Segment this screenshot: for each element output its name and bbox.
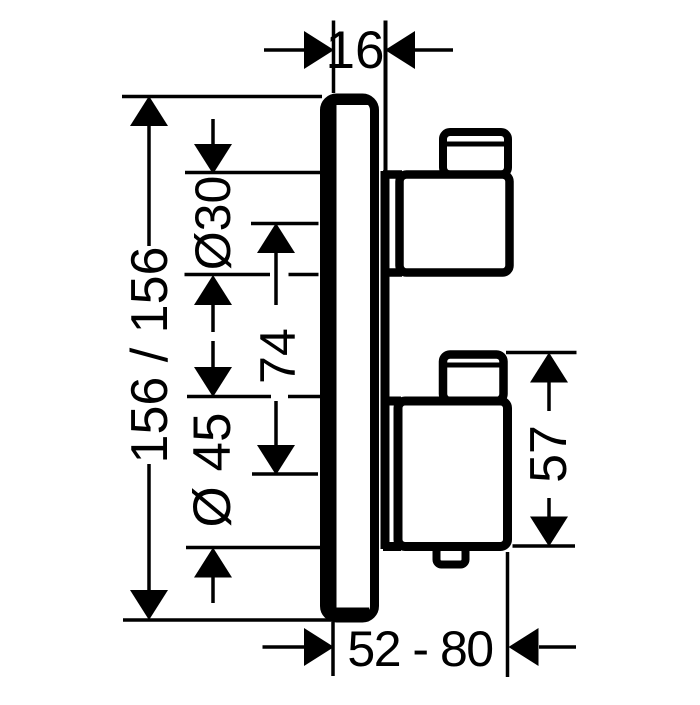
svg-text:Ø 45: Ø 45 xyxy=(183,413,242,528)
svg-text:57: 57 xyxy=(520,425,578,483)
svg-text:74: 74 xyxy=(250,328,306,384)
svg-text:52 - 80: 52 - 80 xyxy=(347,621,492,677)
svg-text:16: 16 xyxy=(326,21,385,80)
svg-text:Ø30: Ø30 xyxy=(185,176,241,271)
svg-text:156 / 156: 156 / 156 xyxy=(121,247,179,464)
